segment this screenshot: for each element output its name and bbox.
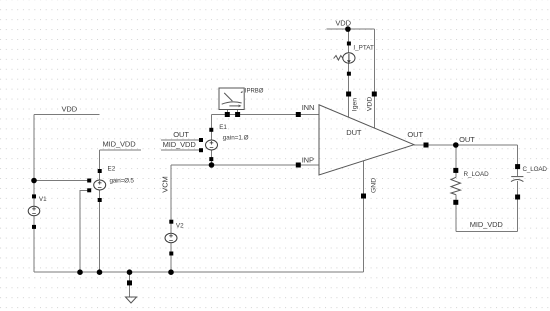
wire E2 minus input (80, 190, 89, 272)
port VDD (372, 92, 377, 97)
resistor R_LOAD zigzag (451, 177, 461, 194)
wire GND pin from DUT (363, 161, 365, 196)
source E1 circle (206, 140, 218, 150)
svg-text:INP: INP (302, 156, 314, 165)
pin E2 minus (87, 188, 91, 192)
pin C_LOAD bottom (515, 195, 520, 200)
V1 polarity (32, 207, 36, 213)
V2 polarity (169, 234, 173, 240)
wire I_PTAT column (348, 29, 350, 94)
svg-text:GND: GND (371, 178, 378, 193)
svg-text:INN: INN (302, 103, 315, 112)
I_PTAT arrow (348, 54, 350, 62)
pin I_PTAT top (347, 42, 351, 46)
node E1 bottom junction (209, 162, 215, 168)
wire C_LOAD branch upper (517, 145, 519, 176)
pin E1 top (209, 128, 213, 132)
svg-text:C_LOAD: C_LOAD (523, 166, 548, 173)
svg-text:R_LOAD: R_LOAD (464, 171, 490, 178)
wire C_LOAD branch lower (517, 181, 519, 232)
wire Igen pin into DUT (348, 94, 350, 117)
plus minus marks (32, 141, 213, 240)
source E2 circle (94, 180, 106, 190)
E2 polarity (98, 181, 102, 187)
wire meter stub right (237, 110, 239, 115)
wire E2 column (99, 150, 101, 272)
wire VCM / INP horizontal (171, 164, 319, 166)
source V1 circle (28, 206, 40, 216)
pin E1 plus (199, 138, 203, 142)
svg-text:VDD: VDD (62, 105, 78, 114)
svg-text:I_PTAT: I_PTAT (353, 45, 374, 52)
meter direction arrow (229, 105, 238, 107)
svg-text:OUT: OUT (459, 135, 475, 144)
capacitor C_LOAD plates (511, 176, 523, 178)
pin E1 minus (199, 148, 203, 152)
svg-text:MID_VDD: MID_VDD (103, 140, 137, 149)
E1 polarity (210, 141, 214, 147)
ground symbol (126, 297, 137, 303)
meter IPRB0 box (219, 88, 244, 110)
pin R_LOAD bottom (453, 200, 458, 205)
svg-text:V2: V2 (176, 223, 184, 230)
wire INN horizontal (212, 114, 320, 116)
wire R_LOAD branch lower (455, 195, 457, 232)
pin E2 top (98, 169, 102, 173)
pin V1 bottom (32, 225, 36, 229)
current source I_PTAT circle (343, 53, 355, 63)
wire meter stub left (226, 110, 228, 115)
pin E1 bottom (209, 157, 213, 161)
port OUT (424, 143, 429, 148)
wire VDD top-right rail (327, 28, 375, 30)
pin V2 top (169, 220, 173, 224)
svg-text:MID_VDD: MID_VDD (163, 140, 197, 149)
port ground square (127, 280, 132, 285)
wire MID_VDD left stub (100, 149, 142, 151)
svg-text:V1: V1 (39, 196, 47, 203)
op-amp U DUT triangle (319, 105, 414, 175)
wire OUT stub to E1 (161, 139, 201, 141)
node E2 plus junction (31, 178, 37, 184)
current source I_PTAT squiggle (334, 56, 343, 61)
pin C_LOAD top (515, 164, 520, 169)
port Igen (346, 92, 351, 97)
pin V1 top (32, 194, 36, 198)
svg-text:VCM: VCM (160, 176, 169, 192)
node OUT junction (453, 142, 459, 148)
wire VDD pin column (373, 29, 375, 94)
port GND (361, 194, 366, 199)
wire E2 plus input (34, 180, 89, 182)
svg-text:gain=1.Ø: gain=1.Ø (223, 135, 249, 142)
wire E1 column (211, 115, 213, 166)
pin E2 bottom (98, 198, 102, 202)
port square meter left (225, 112, 230, 117)
pin I_PTAT bottom (347, 72, 351, 76)
port square meter right (235, 112, 240, 117)
svg-text:IPRBØ: IPRBØ (245, 89, 264, 95)
wire MID_VDD stub to E1 (161, 149, 201, 151)
svg-text:gain=Ø.5: gain=Ø.5 (110, 178, 135, 185)
pin E2 plus (87, 179, 91, 183)
wire VDD pin into DUT (373, 94, 375, 128)
pin R_LOAD top (453, 168, 458, 173)
svg-text:MID_VDD: MID_VDD (470, 220, 504, 229)
port squares (32, 42, 520, 286)
wire MID_VDD bottom right (456, 230, 518, 232)
node VDD top-right junction (345, 26, 351, 32)
wire V2 column (170, 165, 172, 272)
wire OUT net (414, 144, 517, 146)
meter arrowhead (238, 105, 241, 108)
node rail ground (127, 269, 133, 275)
wire R_LOAD branch upper (455, 145, 457, 177)
port INP (296, 163, 301, 168)
wire VDD top-left horizontal (34, 114, 100, 116)
node rail x171 (168, 269, 174, 275)
wire bottom rail (34, 271, 364, 273)
meter corner marker (241, 91, 243, 93)
svg-text:E2: E2 (108, 166, 116, 173)
svg-text:E1: E1 (219, 124, 227, 131)
svg-text:OUT: OUT (173, 130, 189, 139)
svg-text:OUT: OUT (407, 130, 423, 139)
node rail x99 (97, 269, 103, 275)
source V2 circle (165, 233, 177, 242)
svg-text:VDD: VDD (335, 19, 351, 28)
wire ground branch (129, 272, 131, 296)
svg-text:DUT: DUT (346, 128, 362, 137)
wire GND riser (363, 196, 365, 272)
svg-text:VDD: VDD (367, 97, 374, 111)
svg-text:Igen: Igen (352, 98, 359, 111)
wire left vertical V1 column (33, 115, 35, 273)
meter scale arc (222, 102, 242, 104)
port INN (296, 112, 301, 117)
meter needle (224, 93, 232, 101)
node rail x80 (77, 269, 83, 275)
pin V2 bottom (169, 252, 173, 256)
